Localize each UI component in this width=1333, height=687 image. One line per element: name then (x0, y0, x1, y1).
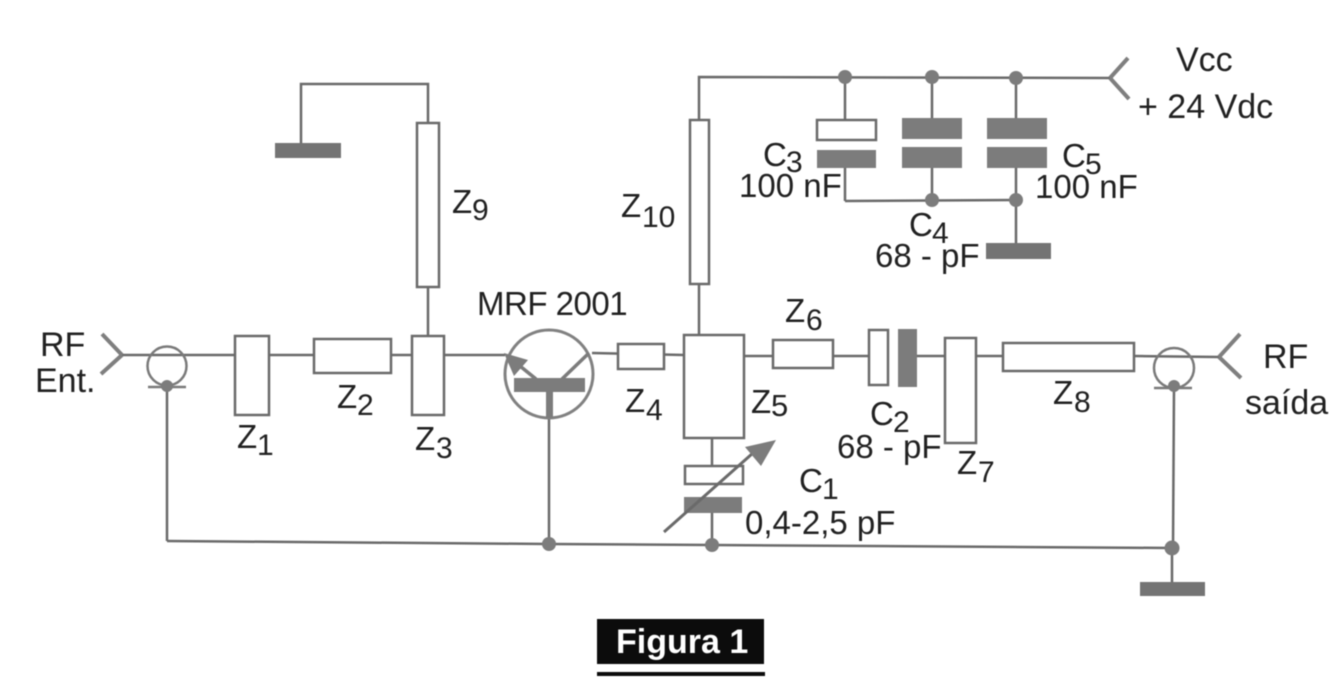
svg-text:RF: RF (40, 326, 85, 364)
wire: C1 bottom lead (711, 513, 714, 545)
svg-text:6: 6 (806, 304, 823, 337)
wire: C5 top lead (1015, 78, 1018, 118)
wire: main input row (120, 354, 505, 357)
capacitor C2 (right plate) (898, 329, 917, 387)
ground (under C5) (986, 243, 1051, 259)
figure caption underline (597, 672, 765, 676)
svg-text:68 - pF: 68 - pF (875, 237, 980, 274)
ground (top-left) (275, 143, 341, 158)
output connector J2 (1154, 348, 1194, 392)
svg-text:Z: Z (415, 420, 435, 457)
figure caption box (597, 619, 764, 664)
junction node: cap bottom bus / C4 (925, 193, 939, 207)
wire: bottom ground bus (167, 541, 1172, 548)
svg-text:68 - pF: 68 - pF (837, 428, 942, 465)
RF output arrow (1219, 334, 1241, 378)
svg-text:3: 3 (436, 432, 453, 465)
svg-text:Z: Z (1053, 374, 1073, 411)
svg-text:100 nF: 100 nF (739, 167, 842, 204)
stripline Z6 (773, 340, 833, 368)
wire: C3 top lead (844, 77, 847, 120)
svg-text:Z: Z (751, 383, 771, 420)
capacitor C3 (top plate) (817, 120, 876, 140)
svg-text:C: C (799, 462, 823, 499)
wire: C2 to Z7 (917, 355, 945, 358)
capacitor C1 (top plate) (685, 466, 743, 484)
capacitor C2 (left plate) (869, 330, 888, 385)
svg-text:Z: Z (337, 378, 357, 415)
svg-text:5: 5 (771, 388, 788, 423)
svg-text:Z: Z (625, 382, 645, 419)
svg-text:1: 1 (822, 473, 839, 506)
junction node: emitter / ground bus (542, 537, 556, 551)
svg-text:Z: Z (452, 183, 472, 220)
svg-text:Z: Z (957, 444, 977, 481)
wire: C5 bottom lead (1015, 167, 1018, 200)
stripline Z2 (314, 339, 391, 373)
wire: Z9 bottom to Z3 top (427, 287, 430, 336)
svg-text:100 nF: 100 nF (1035, 168, 1138, 205)
svg-text:Z: Z (621, 187, 641, 224)
stripline Z8 (1003, 343, 1134, 371)
wire: capacitor bottom bus (845, 200, 1016, 201)
stripline Z1 (235, 336, 269, 415)
wire: C4 top lead (931, 77, 934, 118)
stripline Z3 (412, 336, 444, 415)
wire: top supply bus (699, 77, 1110, 120)
wire: C5 junction down to ground (1015, 200, 1018, 243)
junction node: top bus / C4 (925, 70, 939, 84)
svg-text:Figura 1: Figura 1 (616, 623, 748, 661)
stripline Z5 (684, 335, 744, 438)
wire: top-left ground link horizontal (301, 84, 428, 143)
capacitor C4 (top plate) (902, 118, 962, 139)
ground (output, bottom-right) (1140, 582, 1205, 596)
capacitor C1 (variable arrow) (664, 440, 776, 532)
capacitor C4 (bottom plate) (902, 147, 962, 168)
wire: C4 bottom lead (931, 167, 934, 200)
svg-text:saída: saída (1245, 384, 1328, 422)
Vcc arrow (1110, 58, 1129, 99)
svg-text:Z: Z (785, 292, 805, 329)
svg-text:4: 4 (646, 394, 663, 427)
wire: Z5 bottom to C1 (711, 438, 714, 466)
svg-text:9: 9 (472, 194, 489, 227)
wire: Z7 to Z8 (976, 355, 1003, 358)
wire: output junction to ground (1171, 548, 1174, 582)
svg-text:+ 24 Vdc: + 24 Vdc (1138, 88, 1273, 126)
svg-text:7: 7 (978, 456, 995, 489)
transistor Q1 MRF 2001 (504, 330, 593, 418)
svg-text:Ent.: Ent. (35, 362, 95, 400)
svg-text:1: 1 (257, 429, 274, 462)
stripline Z9 (417, 123, 439, 287)
svg-text:2: 2 (357, 389, 374, 422)
junction node: output / ground bus (1165, 541, 1180, 556)
wire: Z5 right to Z7 (744, 355, 869, 358)
input connector J1 (148, 347, 187, 393)
wire: Z8 to output arrow (1134, 356, 1219, 357)
capacitor C5 (top plate) (987, 118, 1047, 139)
wire: transistor emitter down lead (548, 417, 551, 544)
junction node: cap bottom bus / C5 (1009, 193, 1023, 207)
svg-text:Vcc: Vcc (1176, 41, 1233, 79)
svg-text:MRF 2001: MRF 2001 (477, 285, 627, 322)
svg-text:C: C (870, 395, 894, 432)
svg-text:Z: Z (237, 418, 257, 455)
stripline Z10 (690, 120, 709, 284)
capacitor C5 (bottom plate) (987, 147, 1047, 168)
stripline Z7 (945, 338, 976, 443)
capacitor C3 (bottom plate) (817, 150, 876, 168)
svg-text:10: 10 (642, 201, 675, 234)
wire: input connector down lead (166, 387, 169, 541)
svg-text:0,4-2,5 pF: 0,4-2,5 pF (745, 504, 895, 541)
wire: output connector down lead (1173, 388, 1174, 548)
wire: Z10 bottom to Z5 top (698, 284, 701, 335)
wire: transistor collector to Z4 and on to Z5 (592, 353, 684, 355)
junction node: C1 / ground bus (705, 538, 719, 552)
wire: C3 bottom lead (844, 167, 847, 201)
junction node: top bus / C5 (1009, 71, 1023, 85)
RF input arrow (101, 334, 122, 374)
capacitor C1 (bottom plate) (684, 497, 742, 513)
svg-text:RF: RF (1263, 338, 1308, 376)
svg-text:8: 8 (1074, 386, 1091, 419)
junction node: top bus / C3 (838, 70, 852, 84)
stripline Z4 (618, 344, 664, 369)
